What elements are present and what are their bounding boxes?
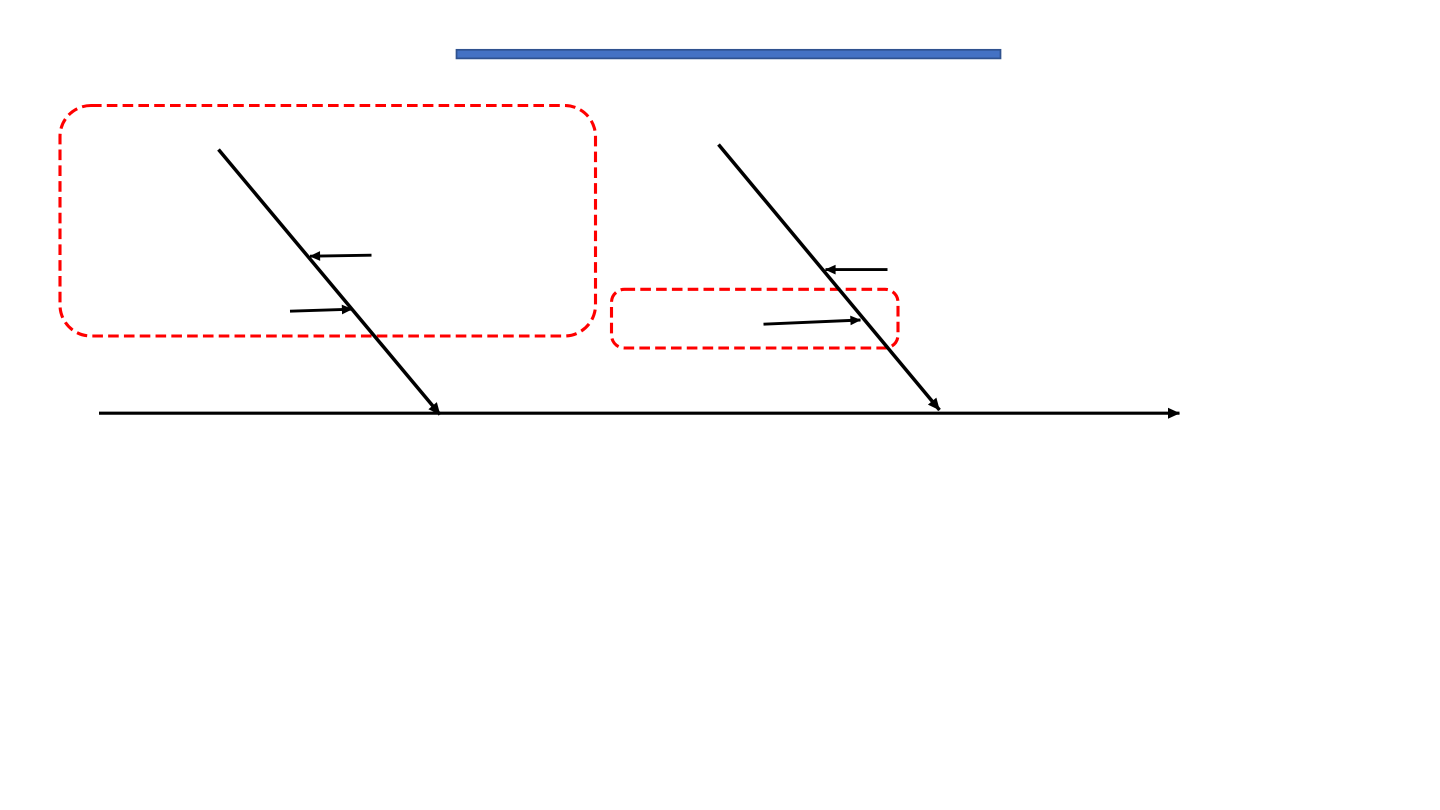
small arrow pointing left at left branch: [310, 255, 372, 256]
blue title bar: [457, 50, 1001, 59]
right diagonal branch with arrowhead: [719, 145, 940, 411]
small red dashed rounded box: [612, 289, 899, 348]
left diagonal branch with arrowhead: [219, 150, 441, 415]
horizontal timeline axis with arrowhead: [99, 412, 1180, 415]
small arrow pointing right at left branch: [290, 309, 352, 311]
small arrow pointing left at right branch: [826, 268, 888, 271]
big red dashed rounded box: [60, 106, 596, 337]
small arrow pointing right inside small box: [764, 320, 861, 324]
